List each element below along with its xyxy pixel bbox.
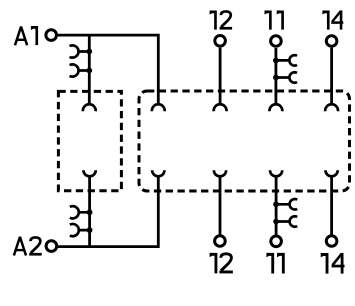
junction dot 11 bottom lower bbox=[273, 219, 279, 225]
label A1 bbox=[15, 27, 27, 46]
junction dot 11 bottom upper bbox=[273, 201, 279, 207]
plug socket top coil bbox=[83, 104, 96, 111]
wire coil branch bottom bbox=[88, 176, 91, 246]
relay contact block dashed outline bbox=[139, 91, 350, 191]
terminal 12 top bbox=[215, 36, 226, 47]
terminal 14 bottom bbox=[326, 236, 337, 247]
plug socket bottom 14 bbox=[325, 170, 337, 176]
label 14 top bbox=[322, 11, 329, 30]
plug socket bottom 12 bbox=[214, 170, 226, 176]
junction dot A2 lower bbox=[87, 227, 93, 233]
wire terminal 11 bottom bbox=[275, 176, 278, 234]
terminal A1 bbox=[46, 30, 57, 41]
terminal 11 top bbox=[271, 36, 282, 47]
wire A1 top horizontal and drop to relay bbox=[58, 35, 159, 104]
junction dot A2 upper bbox=[87, 209, 93, 215]
test tap 11 bottom lower bbox=[276, 216, 297, 226]
test tap A2 upper bbox=[70, 206, 90, 218]
test tap A2 lower bbox=[70, 224, 90, 236]
label 11 bottom bbox=[266, 253, 274, 274]
label 14 bottom bbox=[321, 253, 329, 274]
junction dot A1 lower bbox=[86, 68, 92, 74]
wire terminal 12 bottom bbox=[219, 176, 222, 234]
plug socket top 11 bbox=[270, 104, 283, 111]
plug socket bottom coil bbox=[83, 170, 95, 176]
plug socket bottom A2-relay bbox=[152, 170, 164, 176]
plug socket top 14 bbox=[325, 104, 338, 111]
test tap 11 top upper bbox=[276, 55, 297, 65]
test tap 11 bottom upper bbox=[276, 199, 297, 209]
wire terminal 14 bottom bbox=[330, 176, 333, 234]
junction dot A1 upper bbox=[86, 49, 92, 55]
plug socket bottom 11 bbox=[270, 170, 282, 176]
wire terminal 11 top bbox=[274, 48, 277, 104]
test tap A1 upper bbox=[70, 45, 90, 57]
wire terminal 12 top bbox=[219, 48, 222, 105]
coil module dashed outline bbox=[58, 91, 121, 190]
wire A2 bottom horizontal and rise to relay bbox=[58, 176, 158, 246]
terminal 11 bottom bbox=[271, 236, 282, 247]
label 11 top bbox=[265, 11, 272, 30]
junction dot 11 top lower bbox=[273, 75, 279, 81]
wire terminal 14 top bbox=[330, 48, 333, 105]
test tap A1 lower bbox=[70, 64, 90, 76]
label 12 top bbox=[210, 11, 217, 30]
label A2 bbox=[14, 237, 26, 256]
plug socket top A1-relay bbox=[152, 104, 165, 111]
terminal 14 top bbox=[326, 36, 337, 47]
terminal A2 bbox=[46, 241, 57, 252]
plug socket top 12 bbox=[214, 104, 227, 111]
junction dot 11 top upper bbox=[273, 58, 279, 64]
test tap 11 top lower bbox=[276, 72, 297, 82]
label 12 bottom bbox=[210, 253, 218, 274]
wire coil branch down bbox=[88, 35, 91, 104]
terminal 12 bottom bbox=[215, 236, 226, 247]
